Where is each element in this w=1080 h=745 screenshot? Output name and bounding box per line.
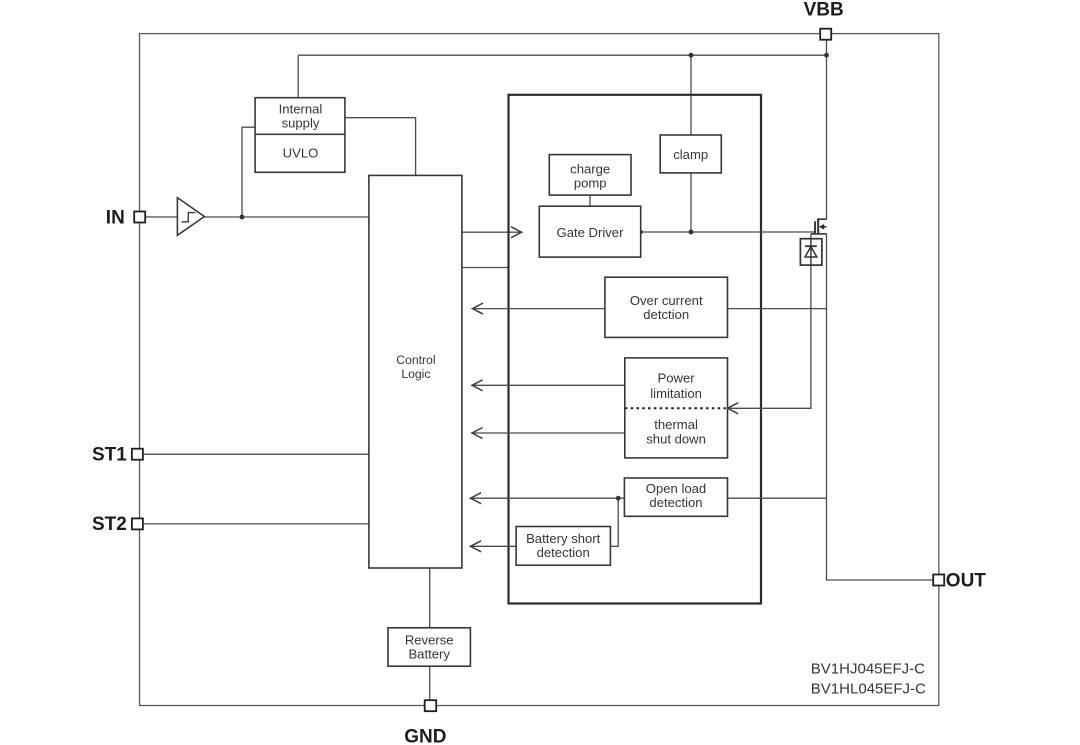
- block: Battery short detection: [516, 527, 610, 566]
- svg-text:IN: IN: [106, 207, 125, 228]
- block: Over current detction: [605, 277, 728, 337]
- wire: internal supply right to control logic top: [345, 118, 416, 176]
- svg-text:pomp: pomp: [574, 175, 607, 190]
- svg-text:Power: Power: [658, 370, 696, 385]
- wire: MOSFET source down to OUT pin: [827, 234, 934, 580]
- pin ST1: [92, 445, 143, 466]
- pin VBB: [804, 0, 844, 40]
- svg-text:VBB: VBB: [804, 0, 844, 21]
- part number text: [811, 660, 926, 697]
- node: open load wire junction: [616, 496, 621, 501]
- svg-text:OUT: OUT: [946, 570, 987, 591]
- svg-text:supply: supply: [282, 116, 320, 131]
- svg-text:shut down: shut down: [646, 431, 706, 446]
- svg-text:GND: GND: [404, 726, 446, 745]
- pin GND: [404, 700, 446, 745]
- schmitt trigger buffer U1: [177, 198, 204, 236]
- svg-text:BV1HL045EFJ-C: BV1HL045EFJ-C: [811, 680, 926, 697]
- svg-text:thermal: thermal: [654, 417, 698, 432]
- svg-text:Gate Driver: Gate Driver: [557, 225, 625, 240]
- node: VBB rail junction: [824, 53, 829, 58]
- function block container: [509, 95, 762, 604]
- block: Power limitation / thermal shut down: [625, 358, 728, 458]
- svg-text:ST1: ST1: [92, 445, 127, 466]
- wire: power limitation to control logic (arrow left): [472, 384, 625, 386]
- pin OUT: [933, 570, 986, 591]
- block: Reverse Battery: [388, 628, 470, 666]
- block: Gate Driver: [539, 206, 640, 257]
- wire: internal supply top feed: [297, 55, 299, 97]
- wire: control logic to function block y=267: [462, 267, 509, 269]
- dotted divider in power limitation box: [625, 407, 728, 409]
- block: clamp: [660, 135, 721, 173]
- svg-text:Control: Control: [396, 353, 435, 367]
- block: UVLO: [255, 134, 345, 172]
- wire: gate driver output to MOSFET gate: [641, 231, 815, 233]
- outer IC boundary: [140, 34, 939, 706]
- block: Internal supply: [255, 98, 345, 135]
- wire: clamp bottom to gate net: [690, 173, 692, 232]
- wire: open load detection to control logic (arrow left): [471, 497, 625, 499]
- wire: VBB rail horizontal y=55: [298, 54, 826, 56]
- wire: ST1 pin to control logic: [144, 453, 369, 455]
- block: Open load detection: [624, 478, 727, 516]
- wire: IN pin to schmitt buffer to control logic: [145, 216, 369, 218]
- svg-text:Reverse: Reverse: [405, 632, 454, 647]
- svg-text:Over current: Over current: [630, 293, 703, 308]
- svg-text:UVLO: UVLO: [283, 146, 319, 161]
- wire: ST2 pin to control logic: [144, 523, 369, 525]
- wire: reverse battery to GND pin: [429, 666, 431, 700]
- svg-text:Logic: Logic: [401, 367, 430, 381]
- wire: thermal shut down to control logic (arrow left): [472, 432, 625, 434]
- svg-text:clamp: clamp: [673, 147, 708, 162]
- svg-text:limitation: limitation: [650, 386, 702, 401]
- wire: control logic to gate driver (arrow right): [462, 231, 522, 233]
- svg-text:Internal: Internal: [279, 102, 323, 117]
- wire: internal supply left to IN net: [242, 127, 255, 217]
- block: Control Logic: [369, 175, 462, 568]
- block: charge pomp: [549, 155, 631, 196]
- pin ST2: [92, 514, 143, 535]
- node: clamp rail junction: [689, 53, 694, 58]
- svg-text:ST2: ST2: [92, 514, 127, 535]
- node: clamp gate junction: [689, 230, 694, 235]
- diode D1 (output clamp diode in box): [800, 234, 822, 265]
- pin IN: [106, 207, 145, 228]
- svg-text:detction: detction: [643, 307, 689, 322]
- transistor Q1 output power MOSFET: [811, 219, 827, 234]
- wire: over current detection sense to OUT line: [728, 308, 827, 310]
- svg-text:BV1HJ045EFJ-C: BV1HJ045EFJ-C: [811, 660, 925, 677]
- wire: charge pomp to gate driver: [589, 195, 591, 206]
- wire: open load detection sense to OUT line: [728, 497, 827, 499]
- svg-text:Battery: Battery: [408, 646, 450, 661]
- svg-text:detection: detection: [649, 495, 702, 510]
- node: gate driver output junction: [639, 230, 643, 234]
- wire: over current detection to control logic (arrow left): [472, 308, 605, 310]
- svg-text:charge: charge: [570, 161, 610, 176]
- wire: clamp top feed: [690, 55, 692, 135]
- wire: battery short detection to control logic (arrow left): [471, 545, 517, 547]
- wire: diode sense line to power limitation (arrow left): [728, 265, 811, 408]
- svg-text:Battery short: Battery short: [526, 531, 601, 546]
- node: IN net junction: [240, 215, 245, 220]
- wire: control logic bottom to reverse battery: [429, 568, 431, 628]
- wire: open load net down to battery short detection: [610, 498, 618, 546]
- svg-text:detection: detection: [537, 545, 590, 560]
- wire: VBB pin down to MOSFET drain: [826, 40, 828, 220]
- svg-text:Open load: Open load: [646, 481, 706, 496]
